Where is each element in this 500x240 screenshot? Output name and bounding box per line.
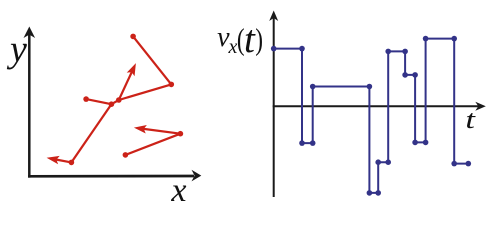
red arrow from C1 <box>119 63 136 100</box>
svg-text:t: t <box>244 18 256 61</box>
red arrow from E <box>47 156 72 164</box>
red trajectory segment C2-E <box>71 104 111 162</box>
red trajectory segment A-B <box>133 36 171 84</box>
left plot x-axis <box>28 170 201 182</box>
red dot G <box>178 131 184 137</box>
blue step function path <box>274 39 469 193</box>
red dot D <box>83 96 89 102</box>
left plot y-axis <box>24 27 36 178</box>
red trajectory segment C1-C2 <box>111 100 118 104</box>
svg-text:x: x <box>228 36 238 58</box>
svg-text:): ) <box>255 22 263 56</box>
red trajectory segment C2-D <box>86 99 111 104</box>
red dot C1 <box>116 97 122 103</box>
red trajectory segment F-G <box>125 134 180 155</box>
blue dots at step vertices <box>271 36 471 196</box>
red dot E <box>69 160 75 166</box>
red trajectory segment B-C1 <box>119 84 172 100</box>
red arrow from G <box>134 125 181 134</box>
right plot v-axis <box>269 11 278 198</box>
red dot B <box>169 82 175 88</box>
svg-text:t: t <box>465 105 476 134</box>
red dot C2 <box>109 101 115 107</box>
svg-text:x: x <box>170 172 186 208</box>
right plot t-axis <box>273 102 486 111</box>
svg-text:y: y <box>6 29 27 71</box>
red dot A <box>130 34 136 40</box>
red dot F <box>123 152 129 158</box>
